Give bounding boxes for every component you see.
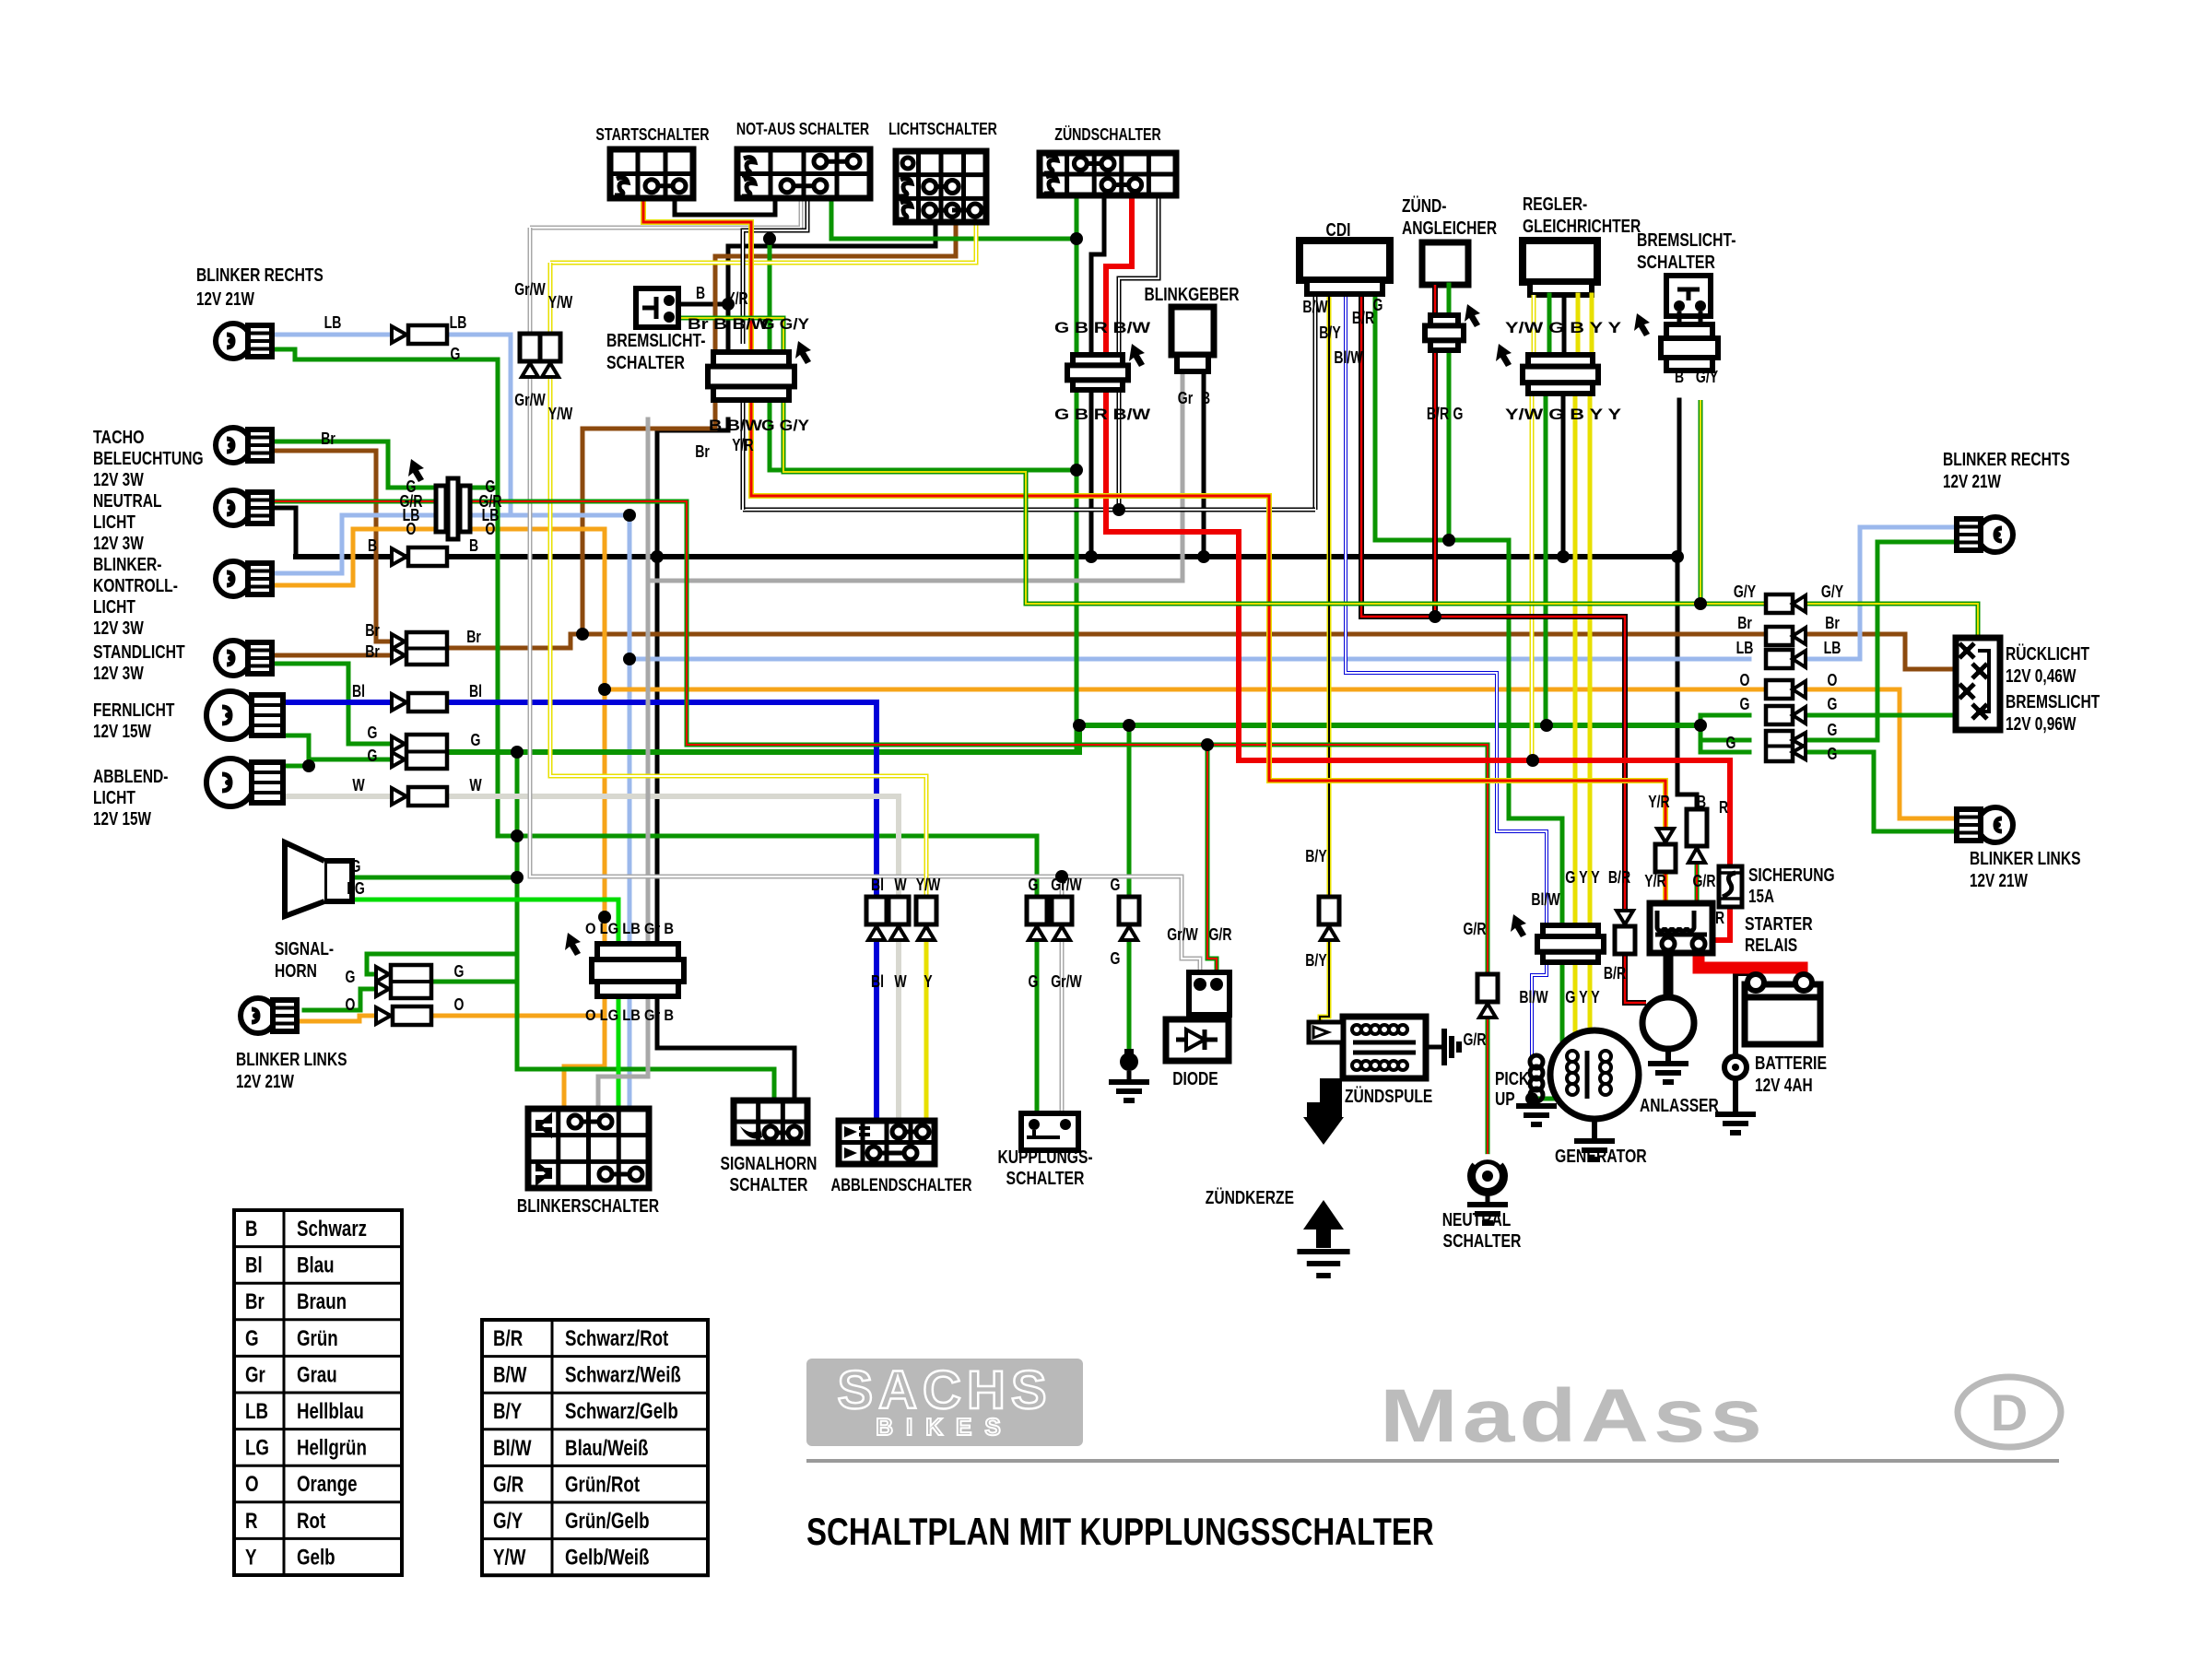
wire BW cdi	[1313, 293, 1318, 510]
junction pickup node	[1525, 1092, 1538, 1105]
svg-text:12V 3W: 12V 3W	[93, 664, 144, 684]
svg-text:O: O	[486, 520, 496, 538]
wire G links stub	[367, 954, 517, 974]
wire Bl bus to abblendschalter	[443, 702, 877, 897]
wire Bl fernlicht stub	[265, 700, 392, 705]
connector YR relais	[1655, 829, 1676, 872]
motor ANLASSER	[1642, 997, 1694, 1049]
svg-text:Gr/W: Gr/W	[514, 280, 546, 299]
svg-text:G: G	[368, 724, 378, 742]
connector Br double	[392, 632, 447, 665]
switch BREMSLICHT-SCHALTER rear	[1666, 276, 1711, 324]
svg-text:G/Y: G/Y	[1734, 582, 1756, 601]
svg-text:G/Y: G/Y	[493, 1509, 523, 1534]
wire LG to blinkerschalter	[617, 996, 621, 1109]
wire G generator lower	[1532, 959, 1562, 1099]
junction B bus end	[1671, 550, 1684, 563]
junction LB node	[623, 509, 636, 522]
wire BR zuendangleicher	[1432, 350, 1438, 617]
wire G to rear right blinker	[1806, 542, 1963, 740]
connector GrW pair upper	[520, 334, 540, 377]
svg-text:Rot: Rot	[297, 1509, 325, 1534]
svg-text:G: G	[1111, 949, 1121, 968]
wire BY to zuendspule	[1320, 938, 1329, 1026]
svg-text:G: G	[1828, 745, 1838, 763]
wire G splitter stub2	[1700, 750, 1749, 755]
svg-text:Schwarz: Schwarz	[297, 1217, 367, 1241]
connector regler plug	[1496, 344, 1598, 394]
wire G splitter vertical	[1699, 715, 1703, 752]
wire G main bus	[450, 725, 1700, 752]
connector zuendangleicher plug	[1425, 304, 1480, 350]
wire G angleicher stub	[1447, 285, 1452, 315]
svg-text:BREMSLICHT-: BREMSLICHT-	[1637, 230, 1736, 251]
svg-text:FERNLICHT: FERNLICHT	[93, 700, 174, 721]
wire G cdi down to generator	[1509, 540, 1562, 927]
svg-text:W: W	[894, 876, 906, 894]
svg-text:B: B	[1201, 389, 1210, 407]
svg-text:Y/R: Y/R	[732, 436, 753, 454]
wire GR neutral schalter pin	[1486, 1017, 1490, 1159]
svg-text:NOT-AUS SCHALTER: NOT-AUS SCHALTER	[736, 120, 869, 138]
svg-text:B: B	[1675, 368, 1684, 386]
wire G ground branch	[1127, 725, 1132, 897]
svg-text:Grün/Gelb: Grün/Gelb	[565, 1509, 650, 1534]
svg-text:TACHO: TACHO	[93, 428, 145, 448]
svg-text:R: R	[1715, 909, 1724, 927]
svg-text:ANGLEICHER: ANGLEICHER	[1402, 218, 1498, 239]
svg-text:LICHT: LICHT	[93, 512, 135, 533]
wire G standlicht	[261, 664, 392, 744]
svg-text:12V 0,46W: 12V 0,46W	[2006, 666, 2077, 687]
ground G branch ground	[1109, 1082, 1149, 1100]
junction O bus	[598, 683, 611, 696]
junction B bus x blinkgeber	[1197, 550, 1210, 563]
wire B battery to ground	[1733, 1077, 1738, 1112]
connector Bl abblend	[866, 897, 887, 940]
svg-text:B/R: B/R	[493, 1326, 523, 1351]
wire BR angleicher stub	[1432, 285, 1438, 315]
svg-text:KONTROLL-: KONTROLL-	[93, 576, 178, 596]
svg-text:B/R: B/R	[1352, 309, 1374, 327]
wire G ground branch lower	[1127, 938, 1132, 1053]
wire LB kontrolllicht	[261, 515, 436, 573]
wire G splitter stub1	[1700, 738, 1749, 743]
junction BW node	[1112, 503, 1125, 516]
svg-text:12V 21W: 12V 21W	[1943, 472, 2001, 492]
svg-text:BIKES: BIKES	[876, 1413, 1013, 1441]
svg-text:R: R	[1719, 798, 1728, 817]
svg-text:G: G	[245, 1326, 259, 1351]
spark gap ZUENDKERZE	[1303, 1078, 1344, 1248]
wire GY to ruecklicht	[1806, 604, 1978, 640]
svg-text:STARTSCHALTER: STARTSCHALTER	[595, 125, 709, 144]
svg-text:12V 3W: 12V 3W	[93, 618, 144, 639]
svg-text:Braun: Braun	[297, 1289, 347, 1314]
wire Br tacho to connector	[261, 451, 392, 641]
svg-text:12V 3W: 12V 3W	[93, 534, 144, 554]
legend table wire color combos	[482, 1320, 708, 1575]
svg-text:LICHT: LICHT	[93, 597, 135, 618]
svg-text:LB: LB	[1736, 639, 1754, 657]
connector BR	[1615, 911, 1635, 954]
wire G tacho	[261, 441, 436, 488]
svg-text:W: W	[894, 972, 906, 991]
wire B rear brake switch	[1677, 400, 1682, 557]
ground battery ground	[1715, 1114, 1756, 1133]
svg-text:B: B	[469, 536, 478, 555]
wire YR startschalter to relais	[643, 198, 1665, 829]
junction G row	[511, 746, 524, 759]
wire Gr to blinkerschalter	[598, 996, 648, 1109]
battery BATTERIE 12V 4AH	[1724, 974, 1820, 1078]
lamp BLINKER RECHTS front	[216, 324, 272, 359]
coil PICK UP	[1530, 1055, 1543, 1101]
svg-text:Grau: Grau	[297, 1362, 337, 1387]
svg-text:Blau: Blau	[297, 1253, 335, 1278]
wire G blinker rechts front	[276, 349, 517, 836]
connector LB rear	[1766, 650, 1806, 668]
connector G rear double	[1766, 731, 1806, 761]
switch KUPPLUNGS-SCHALTER	[1021, 1113, 1078, 1150]
wire Y regler to connector 2	[1588, 387, 1593, 927]
wire B regler stub	[1562, 295, 1567, 359]
junction G horn	[511, 871, 524, 884]
svg-text:Br: Br	[1737, 614, 1752, 632]
svg-text:O: O	[1828, 671, 1838, 689]
svg-text:Grün: Grün	[297, 1326, 338, 1351]
svg-text:SICHERUNG: SICHERUNG	[1748, 865, 1835, 886]
connector G rear	[1766, 706, 1806, 724]
wire G blinker links front	[304, 989, 392, 1010]
wire B anlasser feed thick	[1664, 949, 1674, 999]
svg-text:Y/R: Y/R	[726, 289, 747, 308]
wire G tacho pin east	[468, 486, 498, 490]
wire B regler	[1561, 387, 1566, 557]
junction G notaus	[1070, 232, 1083, 245]
junction B bus x regler	[1557, 550, 1570, 563]
junction G headlights	[302, 759, 315, 772]
wire W bus	[443, 796, 899, 897]
svg-text:BLINKER LINKS: BLINKER LINKS	[1970, 849, 2081, 869]
svg-text:LB: LB	[450, 313, 467, 332]
junction B bus x zuend	[1085, 550, 1098, 563]
ground neutral schalter ground	[1467, 1205, 1508, 1223]
wire BlW cdi to connector	[1346, 293, 1547, 927]
wire B lichtschalter to handlebar connector	[728, 222, 935, 353]
junction G bus end	[1694, 719, 1707, 732]
svg-text:G: G	[1111, 876, 1121, 894]
wire LB to rear right blinker	[1806, 527, 1963, 659]
svg-text:12V 3W: 12V 3W	[93, 470, 144, 490]
svg-text:B: B	[245, 1217, 258, 1241]
svg-text:Y/W: Y/W	[493, 1546, 526, 1571]
svg-text:SCHALTPLAN MIT KUPPLUNGSSCHALT: SCHALTPLAN MIT KUPPLUNGSSCHALTER	[806, 1510, 1434, 1553]
wire Gr blinkgeber	[1181, 371, 1185, 581]
terminal G branch bullet	[1120, 1049, 1138, 1080]
wire Bl abblendschalter pin	[874, 938, 879, 1121]
wire G cdi bus	[1375, 293, 1509, 540]
wire G vertical left	[515, 751, 520, 1069]
svg-text:Gr: Gr	[1178, 389, 1193, 407]
wire anlasser ground stem	[1665, 1049, 1671, 1062]
svg-text:SCHALTER: SCHALTER	[1006, 1169, 1085, 1189]
svg-text:G: G	[1828, 695, 1838, 713]
connector O links	[376, 1006, 431, 1025]
svg-text:SCHALTER: SCHALTER	[606, 353, 685, 373]
svg-text:B/R: B/R	[1427, 405, 1449, 423]
wire BW handlebar lower	[741, 400, 746, 510]
svg-text:SACHS: SACHS	[837, 1360, 1052, 1420]
wire Y abblendschalter pin	[924, 938, 929, 1121]
svg-text:Hellblau: Hellblau	[297, 1399, 364, 1424]
svg-text:BREMSLICHT-: BREMSLICHT-	[606, 331, 706, 351]
wire GR neutral licht	[261, 500, 436, 504]
svg-text:Bl/W: Bl/W	[493, 1436, 532, 1461]
switch BREMSLICHT-SCHALTER front	[636, 288, 678, 327]
wire Y generator 1	[1573, 959, 1578, 1034]
svg-text:UP: UP	[1495, 1089, 1515, 1110]
junction B bus x handlebar	[651, 550, 664, 563]
svg-text:B/Y: B/Y	[1305, 847, 1326, 865]
lamp ABBLENDLICHT	[206, 759, 283, 806]
svg-text:D: D	[1991, 1383, 2028, 1441]
svg-text:Bl: Bl	[352, 682, 365, 700]
svg-text:SIGNALHORN: SIGNALHORN	[721, 1154, 818, 1174]
wire B to signalhorn schalter	[657, 996, 794, 1100]
svg-text:B/W: B/W	[493, 1363, 527, 1388]
svg-text:Bl/W: Bl/W	[1519, 988, 1547, 1006]
badge D	[1958, 1377, 2061, 1447]
wire LB blinker rechts stub	[272, 333, 392, 337]
svg-text:RÜCKLICHT: RÜCKLICHT	[2006, 643, 2089, 665]
svg-text:12V 4AH: 12V 4AH	[1755, 1076, 1813, 1096]
svg-text:BLINKER LINKS: BLINKER LINKS	[236, 1050, 347, 1070]
junction G zuend branch	[1070, 464, 1083, 477]
box BLINKGEBER	[1171, 307, 1214, 371]
svg-text:LB: LB	[1824, 639, 1841, 657]
wire Br lichtschalter west	[715, 222, 956, 256]
svg-text:Gelb/Weiß: Gelb/Weiß	[565, 1546, 650, 1571]
lamp BLINKER KONTROLL LICHT	[216, 561, 272, 596]
svg-text:STANDLICHT: STANDLICHT	[93, 642, 185, 663]
switch NOT-AUS SCHALTER	[737, 149, 870, 198]
svg-text:STARTER: STARTER	[1745, 914, 1813, 935]
svg-text:12V 0,96W: 12V 0,96W	[2006, 714, 2077, 735]
wire G notaus	[831, 198, 1077, 239]
wire LG signalhorn	[335, 900, 618, 944]
wire BlW to pickup	[1532, 959, 1547, 1057]
junction LB bus	[623, 653, 636, 665]
wire GrW to notaus	[530, 198, 801, 228]
junction G angleicher	[1442, 534, 1455, 547]
svg-text:Bl: Bl	[245, 1253, 263, 1278]
junction G bus a	[1073, 719, 1086, 732]
legend table wire colors	[234, 1210, 402, 1575]
svg-text:Schwarz/Weiß: Schwarz/Weiß	[565, 1363, 681, 1388]
svg-text:B/Y: B/Y	[1305, 951, 1326, 970]
switch NEUTRAL SCHALTER	[1467, 1156, 1508, 1196]
connector rear brake plug	[1634, 313, 1718, 371]
switch LICHTSCHALTER	[896, 151, 986, 222]
svg-text:15A: 15A	[1748, 887, 1774, 907]
svg-text:G: G	[1726, 734, 1736, 752]
svg-text:G/R: G/R	[493, 1472, 524, 1497]
wire BW bus	[743, 508, 1315, 512]
svg-text:12V 21W: 12V 21W	[196, 289, 254, 310]
wire G regler	[1544, 387, 1548, 725]
svg-text:ZÜNDSPULE: ZÜNDSPULE	[1345, 1086, 1432, 1107]
svg-text:Gr/W: Gr/W	[1051, 972, 1082, 991]
generator GENERATOR	[1550, 1030, 1639, 1141]
wire GrW kupplung stub	[1060, 877, 1065, 897]
svg-text:BLINKER RECHTS: BLINKER RECHTS	[196, 265, 324, 286]
svg-text:O: O	[346, 995, 356, 1014]
svg-text:SCHALTER: SCHALTER	[730, 1175, 808, 1195]
wire LB to blinkerschalter	[628, 996, 632, 1109]
svg-text:Grün/Rot: Grün/Rot	[565, 1472, 640, 1497]
svg-text:G: G	[454, 962, 465, 981]
svg-text:G: G	[1029, 972, 1039, 991]
wire GR bus to neutral schalter	[468, 501, 1488, 974]
svg-text:O: O	[1740, 671, 1750, 689]
svg-text:GENERATOR: GENERATOR	[1555, 1147, 1647, 1167]
wire G signalhorn	[335, 876, 517, 880]
svg-text:SCHALTER: SCHALTER	[1637, 253, 1715, 273]
ground anlasser ground	[1648, 1064, 1688, 1082]
svg-text:Orange: Orange	[297, 1472, 358, 1497]
ground generator ground	[1574, 1141, 1615, 1159]
svg-text:LG: LG	[347, 879, 365, 898]
svg-text:O LG LB Gr B: O LG LB Gr B	[585, 1006, 674, 1024]
svg-text:G/R: G/R	[1693, 872, 1716, 890]
svg-text:BATTERIE: BATTERIE	[1755, 1053, 1827, 1074]
svg-text:Bl: Bl	[871, 876, 884, 894]
lamp BLINKER LINKS front	[241, 998, 297, 1033]
wire O vertical to blinkerschalter	[468, 529, 605, 1109]
svg-text:O LG LB Gr B: O LG LB Gr B	[585, 920, 674, 937]
wire GR to diode	[1207, 745, 1217, 972]
wire R zuendschalter to sicherung	[1106, 195, 1730, 870]
wire GrW kupplung below	[1060, 938, 1065, 1113]
wire O bus east	[605, 688, 1766, 692]
svg-text:Br: Br	[321, 429, 335, 448]
svg-text:B/R: B/R	[1604, 964, 1626, 982]
wire G zuendschalter	[1075, 195, 1079, 752]
svg-text:LICHTSCHALTER: LICHTSCHALTER	[888, 120, 997, 138]
svg-text:O: O	[454, 995, 465, 1014]
connector GR neutral	[1477, 974, 1498, 1018]
lamp TACHO BELEUCHTUNG	[216, 428, 272, 463]
svg-text:G Y Y: G Y Y	[1565, 868, 1600, 887]
wire G fernlicht	[261, 735, 392, 759]
svg-text:Bl: Bl	[469, 682, 482, 700]
svg-text:Br: Br	[365, 642, 380, 661]
svg-text:LICHT: LICHT	[93, 788, 135, 808]
junction GrW node	[1055, 870, 1068, 883]
svg-text:Bl/W: Bl/W	[1334, 348, 1362, 367]
svg-text:12V 21W: 12V 21W	[236, 1072, 294, 1092]
wire G abblendlicht	[261, 764, 309, 769]
svg-text:SIGNAL-: SIGNAL-	[275, 939, 334, 959]
wire LB blinker rechts to node	[443, 335, 629, 515]
svg-text:Gr/W: Gr/W	[1167, 925, 1198, 944]
lamp BLINKER RECHTS rear	[1957, 517, 2013, 552]
svg-text:Y/R: Y/R	[1644, 872, 1665, 890]
svg-text:G/Y: G/Y	[1696, 368, 1718, 386]
box ZUEND-ANGLEICHER	[1422, 242, 1468, 285]
svg-text:B/Y: B/Y	[493, 1399, 522, 1424]
svg-text:Y/W: Y/W	[916, 876, 941, 894]
svg-text:G: G	[368, 747, 378, 765]
wire B battery minus lead	[1735, 973, 1756, 1057]
svg-text:O: O	[245, 1472, 259, 1497]
svg-text:12V 15W: 12V 15W	[93, 722, 151, 742]
svg-text:ABBLENDSCHALTER: ABBLENDSCHALTER	[830, 1176, 971, 1195]
lamp NEUTRAL LICHT	[216, 490, 272, 525]
wire Y regler stub 1	[1576, 295, 1581, 359]
svg-text:Schwarz/Gelb: Schwarz/Gelb	[565, 1399, 678, 1424]
switch ABBLENDSCHALTER	[839, 1121, 935, 1164]
wire Br to ruecklicht	[1905, 634, 1956, 669]
junction O node low	[598, 911, 611, 924]
wire B front brake switch	[678, 302, 728, 307]
svg-text:Br: Br	[466, 628, 481, 646]
wire Br main bus	[449, 634, 1905, 648]
svg-text:Y/R: Y/R	[1648, 793, 1669, 811]
svg-text:G G/Y: G G/Y	[761, 417, 810, 434]
svg-text:Br: Br	[695, 442, 710, 461]
wire GY front brake to handlebar	[678, 318, 783, 353]
horn SIGNAL-HORN	[285, 842, 352, 916]
wire G to rear left blinker	[1806, 752, 1963, 831]
svg-text:B/R: B/R	[1608, 868, 1630, 887]
svg-text:BLINKER RECHTS: BLINKER RECHTS	[1943, 450, 2070, 470]
svg-text:KUPPLUNGS-: KUPPLUNGS-	[997, 1147, 1092, 1168]
svg-text:BELEUCHTUNG: BELEUCHTUNG	[93, 449, 204, 469]
wire G to signalhorn schalter	[517, 1069, 774, 1100]
svg-text:12V 21W: 12V 21W	[1970, 871, 2028, 891]
wire GR relais leg	[1695, 865, 1700, 903]
relay STARTER RELAIS	[1650, 903, 1712, 953]
connector GY rear	[1766, 594, 1806, 613]
svg-text:G Y Y: G Y Y	[1565, 988, 1600, 1006]
svg-text:Gr: Gr	[245, 1362, 265, 1387]
wire Y regler stub 2	[1590, 295, 1594, 359]
wire B neutral-licht to bus	[261, 508, 296, 557]
svg-text:Br: Br	[1825, 614, 1840, 632]
svg-text:ABBLEND-: ABBLEND-	[93, 767, 169, 787]
svg-text:W: W	[352, 776, 364, 794]
wire LB pin row east	[468, 513, 629, 518]
junction G bus regler	[1540, 719, 1553, 732]
wire YW handlebar to abblendschalter	[550, 263, 926, 897]
svg-text:G B R B/W: G B R B/W	[1054, 406, 1151, 423]
wire GrW vertical+bus	[530, 228, 1062, 877]
wire G to bremslicht lamp	[1806, 713, 1956, 718]
svg-text:ZÜND-: ZÜND-	[1402, 195, 1447, 217]
svg-text:G: G	[471, 731, 481, 749]
svg-text:Hellgrün: Hellgrün	[297, 1436, 367, 1461]
wire Br standlicht to connector	[261, 653, 392, 658]
svg-text:Br: Br	[365, 621, 380, 640]
svg-text:G: G	[351, 857, 361, 876]
wire G to kupplungsschalter	[517, 836, 1037, 897]
connector W abblend	[888, 897, 909, 940]
svg-text:ANLASSER: ANLASSER	[1640, 1096, 1719, 1116]
wire W abblendschalter pin	[896, 938, 901, 1121]
connector G links double	[376, 965, 431, 998]
